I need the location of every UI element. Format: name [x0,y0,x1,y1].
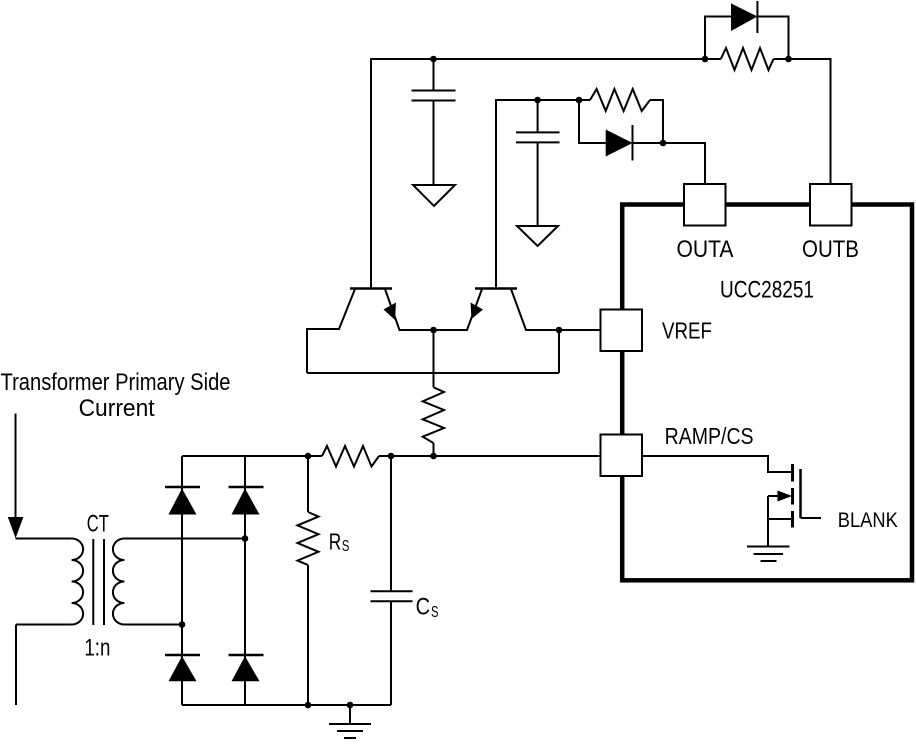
svg-text:Current: Current [79,395,155,422]
svg-text:VREF: VREF [662,318,712,344]
svg-text:UCC28251: UCC28251 [720,276,814,303]
svg-text:OUTA: OUTA [677,236,734,263]
svg-text:CT: CT [87,510,109,537]
svg-text:BLANK: BLANK [838,509,898,532]
svg-text:S: S [431,604,439,621]
svg-text:R: R [329,529,342,555]
svg-text:C: C [416,593,431,620]
svg-text:Transformer Primary Side: Transformer Primary Side [1,369,231,396]
svg-text:RAMP/CS: RAMP/CS [665,423,754,449]
svg-text:OUTB: OUTB [802,236,859,263]
svg-text:1:n: 1:n [84,635,110,662]
svg-text:S: S [342,538,350,555]
